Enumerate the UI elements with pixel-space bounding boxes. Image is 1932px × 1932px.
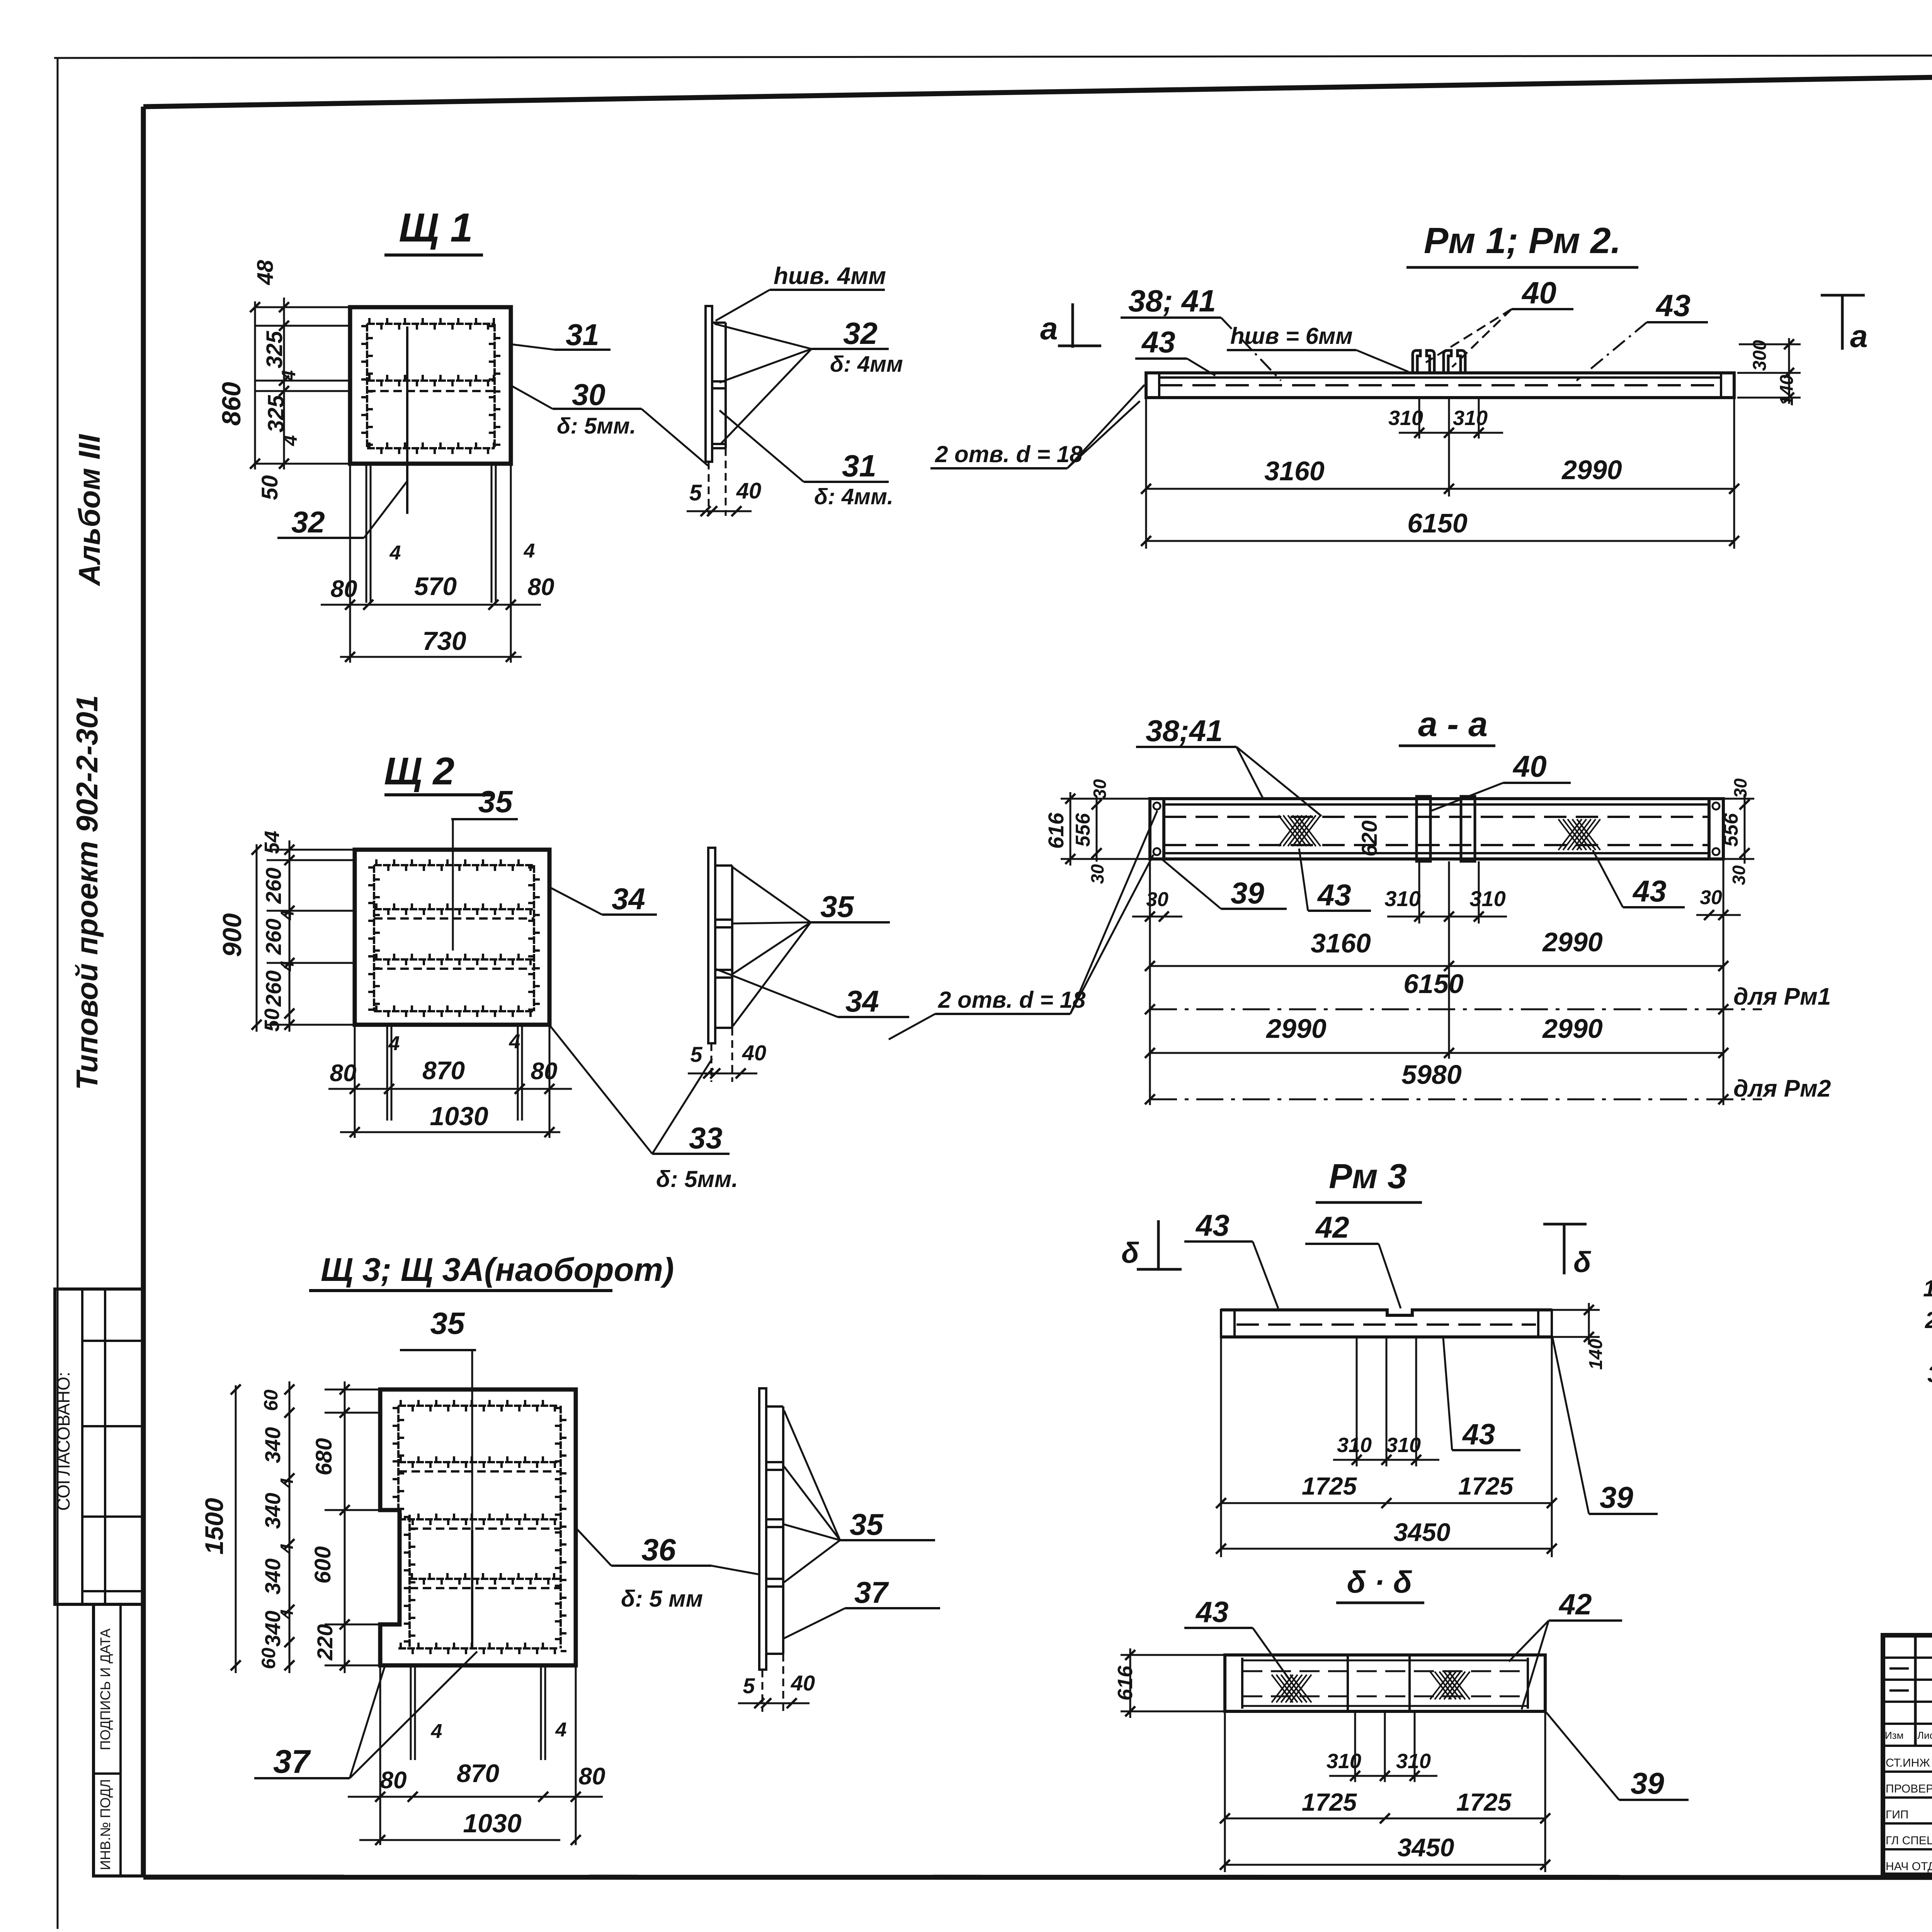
svg-text:42: 42 [1558,1588,1592,1621]
svg-text:620: 620 [1357,820,1381,856]
svg-text:30: 30 [1730,778,1750,798]
svg-text:3160: 3160 [1311,928,1371,958]
svg-text:616: 616 [1114,1665,1137,1701]
svg-text:4: 4 [277,1478,297,1488]
svg-text:50: 50 [260,1009,284,1032]
svg-text:35: 35 [478,784,513,819]
svg-text:43: 43 [1141,325,1175,359]
svg-text:30: 30 [1087,864,1107,884]
svg-text:310: 310 [1337,1434,1372,1457]
svg-text:2990: 2990 [1561,455,1622,485]
svg-text:340: 340 [260,1611,285,1646]
svg-text:600: 600 [310,1546,335,1584]
svg-text:Щ 1: Щ 1 [399,205,473,250]
svg-text:5: 5 [690,1042,702,1066]
svg-text:hшв = 6мм: hшв = 6мм [1230,323,1353,349]
svg-text:80: 80 [380,1767,407,1794]
svg-text:260: 260 [261,867,286,904]
svg-text:δ: 5 мм: δ: 5 мм [621,1586,703,1612]
svg-text:32: 32 [291,505,325,539]
svg-text:80: 80 [579,1763,605,1790]
svg-text:Рм 1; Рм 2.: Рм 1; Рм 2. [1424,220,1621,261]
svg-text:37: 37 [854,1575,889,1609]
svg-text:60: 60 [260,1389,282,1411]
svg-text:340: 340 [260,1427,285,1463]
svg-text:50: 50 [257,475,282,500]
svg-text:860: 860 [217,382,246,426]
svg-text:ПОДПИСЬ И ДАТА: ПОДПИСЬ И ДАТА [97,1628,113,1750]
svg-text:325: 325 [264,395,289,433]
svg-text:310: 310 [1469,886,1505,911]
svg-text:1725: 1725 [1302,1472,1357,1500]
svg-text:1500: 1500 [200,1498,228,1554]
svg-text:900: 900 [218,913,247,957]
svg-text:30: 30 [1729,865,1749,885]
svg-text:Типовой проект 902-2-301: Типовой проект 902-2-301 [70,695,104,1090]
svg-text:34: 34 [845,984,879,1018]
svg-text:570: 570 [414,572,457,600]
svg-text:4: 4 [555,1719,567,1741]
svg-text:43: 43 [1317,878,1351,912]
svg-text:ПРОВЕР: ПРОВЕР [1886,1782,1932,1795]
svg-text:40: 40 [791,1671,815,1695]
svg-text:31: 31 [842,449,876,483]
svg-text:НАЧ ОТД: НАЧ ОТД [1886,1860,1932,1873]
svg-text:310: 310 [1388,406,1423,430]
svg-text:870: 870 [457,1759,499,1787]
svg-text:80: 80 [528,574,554,600]
svg-text:5: 5 [689,480,702,505]
svg-text:4: 4 [279,435,301,446]
svg-text:δ · δ: δ · δ [1347,1565,1412,1599]
svg-text:δ: 4мм.: δ: 4мм. [814,484,893,509]
svg-text:310: 310 [1327,1750,1361,1773]
svg-text:1725: 1725 [1302,1788,1357,1816]
svg-text:870: 870 [422,1056,465,1085]
svg-text:Рм 3: Рм 3 [1329,1157,1407,1196]
svg-text:1030: 1030 [430,1102,488,1131]
svg-text:42: 42 [1315,1210,1349,1244]
svg-text:δ: 4мм: δ: 4мм [830,352,903,377]
svg-text:37: 37 [273,1743,311,1780]
svg-text:30: 30 [1090,779,1110,799]
svg-text:Альбом III: Альбом III [72,434,106,587]
svg-text:260: 260 [261,918,286,955]
svg-text:30: 30 [572,378,605,412]
svg-text:35: 35 [820,889,854,923]
svg-text:35: 35 [850,1507,884,1541]
svg-text:300: 300 [1750,340,1770,371]
svg-text:1725: 1725 [1456,1788,1512,1816]
svg-text:а - а: а - а [1418,705,1488,744]
svg-text:δ: 5мм.: δ: 5мм. [656,1166,738,1192]
svg-text:33: 33 [689,1121,723,1155]
svg-text:Изм: Изм [1885,1730,1903,1741]
svg-text:Щ 3; Щ 3А(наоборот): Щ 3; Щ 3А(наоборот) [321,1252,674,1288]
svg-text:3450: 3450 [1394,1518,1451,1546]
svg-text:260: 260 [261,970,286,1007]
svg-text:δ: 5мм.: δ: 5мм. [557,413,636,439]
svg-text:40: 40 [1521,276,1556,310]
svg-text:СТ.ИНЖ: СТ.ИНЖ [1886,1757,1930,1769]
svg-text:hшв. 4мм: hшв. 4мм [774,263,886,289]
svg-text:310: 310 [1453,406,1488,430]
svg-text:1030: 1030 [463,1809,521,1838]
svg-text:43: 43 [1195,1596,1229,1629]
svg-text:3160: 3160 [1264,456,1325,486]
svg-text:39: 39 [1231,876,1264,910]
svg-text:40: 40 [1512,749,1547,783]
svg-text:340: 340 [260,1493,285,1529]
svg-text:54: 54 [260,831,284,854]
svg-text:4: 4 [278,370,299,381]
svg-text:a: a [1850,319,1868,354]
svg-text:310: 310 [1386,1434,1421,1457]
svg-text:39: 39 [1600,1480,1633,1514]
svg-text:для Рм1: для Рм1 [1733,983,1831,1010]
svg-text:40: 40 [736,478,762,503]
svg-text:2 отв. d = 18: 2 отв. d = 18 [938,987,1086,1013]
svg-text:43: 43 [1655,288,1690,323]
svg-text:60: 60 [258,1648,279,1669]
svg-text:4: 4 [389,542,401,564]
svg-text:2990: 2990 [1542,1014,1603,1044]
svg-text:2. Сварку вести электродами: 2. Сварку вести электродами Э 42 по ГОСТ… [1925,1307,1932,1333]
svg-text:43: 43 [1462,1418,1495,1451]
svg-text:4: 4 [524,540,535,562]
svg-text:43: 43 [1632,874,1667,908]
svg-text:a: a [1040,311,1058,346]
svg-text:1 Материал- сталь ВСт3 кп 2,: 1 Материал- сталь ВСт3 кп 2, класса С 38… [1923,1276,1932,1301]
svg-text:4: 4 [431,1720,442,1743]
svg-text:ГИП: ГИП [1886,1808,1908,1821]
svg-text:80: 80 [330,1060,357,1087]
svg-text:6150: 6150 [1407,508,1468,538]
svg-text:3450: 3450 [1398,1833,1454,1862]
svg-text:5: 5 [743,1673,755,1698]
svg-text:556: 556 [1072,813,1094,847]
svg-text:для Рм2: для Рм2 [1733,1075,1831,1102]
svg-text:2990: 2990 [1265,1014,1327,1044]
svg-text:4: 4 [388,1032,400,1055]
svg-text:220: 220 [313,1624,337,1660]
svg-text:СОГЛАСОВАНО:: СОГЛАСОВАНО: [53,1372,73,1511]
svg-text:680: 680 [311,1438,337,1476]
svg-text:140: 140 [1586,1339,1606,1370]
svg-text:310: 310 [1384,886,1420,911]
svg-text:730: 730 [422,626,466,656]
svg-text:6150: 6150 [1403,969,1464,999]
svg-text:δ: δ [1121,1236,1139,1269]
svg-text:38; 41: 38; 41 [1128,284,1216,318]
svg-text:ГЛ СПЕЦ: ГЛ СПЕЦ [1886,1834,1932,1847]
svg-text:40: 40 [742,1041,766,1065]
svg-text:39: 39 [1631,1766,1664,1800]
svg-text:310: 310 [1396,1750,1431,1773]
svg-text:35: 35 [430,1306,465,1340]
svg-text:3. Металлические марки окра: 3. Металлические марки окрасить краской … [1927,1361,1932,1387]
svg-text:80: 80 [331,576,357,602]
svg-text:4: 4 [509,1031,520,1053]
svg-text:4: 4 [277,961,298,972]
svg-text:32: 32 [843,316,878,350]
svg-text:5980: 5980 [1401,1060,1462,1090]
svg-text:325: 325 [262,331,287,369]
svg-text:4: 4 [277,1544,297,1554]
svg-text:34: 34 [612,882,645,916]
svg-text:340: 340 [260,1558,285,1594]
svg-text:80: 80 [531,1058,558,1085]
svg-text:ИНВ.№ ПОДЛ: ИНВ.№ ПОДЛ [97,1779,113,1870]
svg-text:1725: 1725 [1458,1472,1514,1500]
svg-text:δ: δ [1573,1246,1591,1278]
svg-text:Лист: Лист [1917,1730,1932,1741]
svg-text:2 отв. d = 18: 2 отв. d = 18 [935,441,1083,467]
svg-text:31: 31 [566,318,599,352]
svg-text:2990: 2990 [1542,927,1603,957]
svg-text:556: 556 [1720,813,1742,847]
svg-text:30: 30 [1700,886,1722,909]
svg-text:43: 43 [1195,1208,1230,1242]
svg-text:38;41: 38;41 [1146,714,1223,748]
svg-text:48: 48 [253,260,278,285]
svg-text:140: 140 [1777,375,1797,406]
svg-text:36: 36 [641,1532,676,1567]
svg-text:616: 616 [1044,812,1068,849]
svg-text:Щ 2: Щ 2 [384,750,454,793]
